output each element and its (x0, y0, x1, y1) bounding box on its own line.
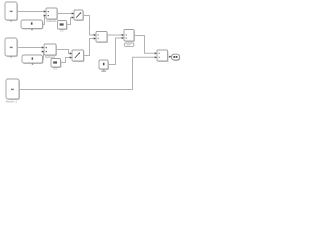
svg-text:Subtract2: Subtract2 (45, 56, 56, 59)
svg-text:Module 3: Module 3 (6, 100, 18, 103)
svg-text:Subtract1: Subtract1 (46, 20, 57, 23)
